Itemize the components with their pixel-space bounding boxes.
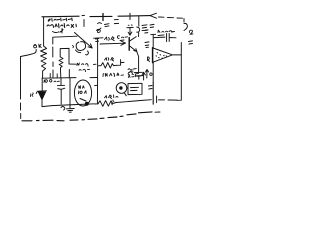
wire stub from box with up arrow — [142, 72, 145, 80]
crystal holder inner plates — [127, 87, 139, 90]
label under J1 row 2 — [111, 100, 114, 105]
jack J1 center dot — [119, 86, 122, 89]
antenna squiggle under title — [53, 29, 64, 34]
label under J1 row — [105, 95, 119, 99]
wire Q2 emitter with arrowhead — [100, 41, 126, 45]
scribble near ground — [61, 107, 65, 111]
label 2 top right — [189, 30, 193, 34]
crystal box X1 — [60, 48, 69, 57]
battery polarity scribble — [149, 86, 153, 90]
label R1 value 6K — [34, 44, 42, 48]
capacitor C5 0.05 — [134, 72, 143, 79]
jack J1 tail — [125, 93, 127, 96]
wire long vertical above speaker — [151, 34, 156, 47]
wire dashed left border — [20, 57, 22, 119]
diode D1 lead from bus — [41, 78, 43, 90]
speaker SP bar — [152, 48, 154, 63]
node blob on bottom run — [85, 102, 89, 106]
enclosure title text row 1 — [48, 18, 72, 21]
label R3 value 47K — [105, 58, 114, 62]
capacitor C4 trimmer — [137, 17, 147, 37]
label above box — [129, 74, 141, 78]
wire T lower drop to bottom run — [95, 80, 98, 104]
label M left of speaker — [145, 42, 149, 48]
resistor R3 horizontal — [98, 63, 117, 69]
enclosure title text row 2 — [47, 24, 76, 28]
label gimmick row 1 — [77, 63, 88, 66]
label gimmick row 2 — [79, 69, 90, 71]
arrow up tick near bus — [146, 70, 149, 79]
wire R3 up hook — [117, 60, 124, 66]
wire stub below rail — [83, 20, 85, 27]
label 0.05 value — [128, 69, 136, 72]
wire T vertical mid — [94, 38, 103, 80]
inductor L1 loop — [76, 42, 86, 53]
speaker hatch dots — [156, 53, 167, 59]
resistor R5 small squiggle in branch — [59, 57, 63, 77]
capacitor C7 output — [154, 33, 176, 41]
wire left border feed — [21, 50, 37, 57]
wire top rail right segment — [118, 15, 150, 18]
wire dashed bottom border — [22, 112, 152, 121]
label C4 value — [117, 36, 127, 41]
wire bottom run to battery — [115, 100, 151, 103]
label o below speaker — [150, 73, 152, 75]
wire dashed bottom to right border — [159, 99, 178, 101]
hook at right border top — [184, 23, 187, 30]
resistor R4 bottom — [95, 101, 115, 107]
wire ground bus — [42, 77, 98, 80]
resistor R1 6K vertical — [41, 46, 47, 78]
wire top rail middle segment — [90, 15, 112, 17]
capacitor C6 electrolytic — [58, 78, 65, 104]
wire horizontal to tank — [53, 36, 77, 37]
scribble marks near L1 — [86, 39, 99, 55]
label C6 value 100mfd — [44, 79, 59, 82]
node dot on top rail — [82, 14, 85, 16]
wire bottom run left — [52, 105, 75, 106]
wire right border vertical — [177, 43, 181, 101]
speaker SP cone edges — [153, 48, 172, 62]
label D1 — [31, 93, 34, 97]
label antenna text right of arrow — [142, 24, 154, 28]
node junction tick C2 — [129, 13, 131, 19]
diode D1 zener cathode bar — [36, 91, 46, 94]
label Q1 underline — [80, 99, 86, 102]
ticks below label 2 — [189, 41, 193, 44]
label C2 right of 1N34A — [128, 72, 138, 75]
tick near tank wire end — [72, 46, 75, 48]
capacitor C3 small plates — [114, 20, 118, 24]
label phones right — [158, 30, 172, 35]
label R near speaker — [148, 57, 150, 62]
wire bottom run through Q1 — [75, 103, 96, 106]
wire dashed bottom border end — [155, 111, 160, 113]
wire dashed top border — [159, 17, 185, 22]
arrow variable slug through L1 — [75, 33, 93, 49]
ground symbol — [66, 105, 74, 113]
jack J1 circle — [116, 83, 127, 94]
crystal holder box B — [128, 83, 142, 94]
label Q1 row 1 — [79, 86, 85, 89]
battery B1 short plate — [156, 96, 158, 103]
label R2 value 4.7K — [105, 37, 115, 41]
wire vertical branch left (sketchy) — [52, 37, 54, 77]
label diode 1N34A row — [103, 73, 124, 77]
diode D1 lead to bottom run — [42, 100, 52, 107]
node junction tick C1 — [102, 14, 104, 21]
wire L pointer to gimmick label — [69, 56, 76, 77]
capacitor C3 down-arrow symbol — [127, 25, 133, 35]
wire speaker apex to border — [172, 54, 182, 56]
battery B1 long plate — [152, 82, 154, 104]
wire Q2 collector drop — [137, 52, 139, 72]
node ticks above bus — [50, 74, 57, 78]
transistor Q1 can ellipse — [74, 80, 91, 106]
tick right of label — [94, 63, 97, 65]
transistor Q2 — [128, 38, 130, 51]
label near C7 — [145, 30, 175, 33]
wire top-left corner drop — [43, 17, 45, 46]
wire long vertical below speaker — [152, 63, 154, 82]
wire top antenna rail left segment — [42, 15, 79, 18]
label Q1 row 2 — [79, 91, 87, 94]
wire vertical into Q1 — [69, 78, 71, 104]
arrow output pointing left on top rail — [150, 13, 157, 18]
capacitor C1 scribble label — [97, 23, 110, 33]
diode D1 body — [38, 92, 45, 100]
